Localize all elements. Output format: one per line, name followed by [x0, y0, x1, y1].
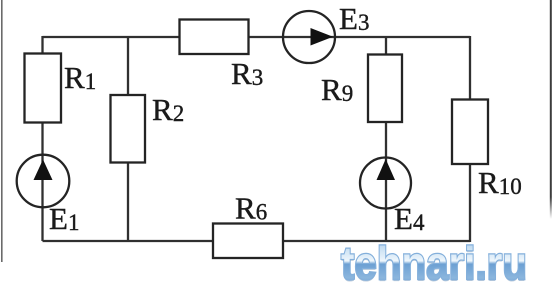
source E3 — [283, 1, 369, 63]
watermark tehnari.ru — [341, 237, 527, 291]
resistor R10 — [452, 100, 522, 201]
wire: left branch (R1/E1) — [41, 36, 43, 241]
wire: middle branch (R2) — [127, 37, 129, 241]
wire: bottom horizontal net — [43, 240, 471, 242]
wire: R9/E4 branch — [385, 37, 387, 241]
resistor R9 — [321, 55, 402, 123]
resistor R2 — [111, 92, 185, 163]
wire: top horizontal net — [43, 36, 471, 38]
source E4 — [360, 158, 425, 237]
svg-text:tehnari.ru: tehnari.ru — [341, 237, 527, 289]
resistor R1 — [25, 54, 97, 123]
source E1 — [17, 155, 80, 236]
wire: right branch (R10) — [469, 36, 471, 242]
resistor R6 — [213, 191, 283, 259]
resistor R3 — [180, 20, 264, 92]
